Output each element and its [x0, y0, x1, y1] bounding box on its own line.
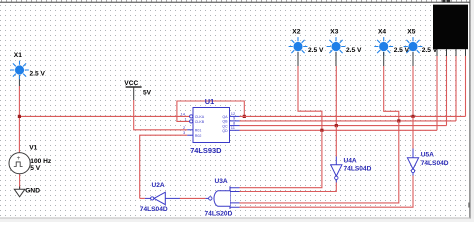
node QA junction — [411, 115, 414, 118]
svg-text:+: + — [17, 155, 21, 162]
label GND — [25, 187, 40, 194]
op-amp U1 body 74LS93D — [193, 108, 230, 143]
pin 8 — [233, 120, 236, 125]
wire U2A output to R02 riser — [140, 197, 145, 199]
pin 3 — [183, 130, 186, 135]
svg-text:QA: QA — [222, 115, 228, 119]
value 2.5 V (X2) — [308, 47, 324, 54]
svg-text:2.5 V: 2.5 V — [346, 47, 362, 54]
wire U4A output to U3A input 2 — [240, 183, 337, 192]
value 5V — [143, 90, 152, 97]
pin 12 — [231, 111, 236, 116]
label U5A — [421, 152, 434, 159]
svg-text:2.5 V: 2.5 V — [308, 47, 324, 54]
nand gate U3A 74LS20D — [205, 186, 239, 209]
wire QA row — [240, 115, 466, 117]
node QA loop junction — [243, 115, 246, 118]
wire QD junction down to U3A input 1 — [240, 130, 322, 187]
svg-text:5V: 5V — [143, 90, 152, 97]
wire X2 to QD — [298, 52, 322, 130]
pin R01 stub — [187, 129, 193, 131]
svg-text:CLKB: CLKB — [195, 120, 205, 124]
wire QB row — [240, 120, 457, 122]
wire VCC to R01 — [134, 100, 188, 130]
value 5 V — [30, 165, 40, 172]
svg-text:100 Hz: 100 Hz — [30, 158, 52, 165]
svg-text:X2: X2 — [292, 28, 300, 35]
ground — [14, 187, 25, 197]
pin 14 — [181, 111, 186, 116]
svg-text:74LS04D: 74LS04D — [344, 165, 372, 172]
border right edge — [468, 0, 474, 222]
svg-text:U5A: U5A — [421, 152, 434, 159]
source V1 — [9, 153, 30, 174]
value 2.5 V (X3) — [346, 47, 362, 54]
node QC junction — [335, 124, 338, 127]
label X5 — [407, 28, 415, 35]
wire X1 to CLKA horizontal — [19, 115, 189, 117]
svg-text:QC: QC — [222, 124, 228, 128]
probe X1 — [10, 60, 29, 79]
pin QB stub — [230, 120, 240, 122]
svg-text:V1: V1 — [29, 145, 37, 152]
pin QA stub — [230, 115, 240, 117]
wire QB junction down to U3A input 3 — [240, 121, 399, 203]
border bottom edge — [0, 218, 474, 222]
wire QC junction to U4A input — [335, 126, 337, 157]
pin 9 — [233, 116, 236, 121]
wire V1 to GND — [19, 174, 21, 189]
probe X3 — [327, 37, 346, 56]
wire QD row — [240, 129, 438, 131]
svg-text:2.5 V: 2.5 V — [30, 70, 46, 77]
svg-text:X3: X3 — [330, 28, 338, 35]
power VCC — [126, 87, 142, 100]
wire QA junction to U5A input — [412, 116, 414, 148]
wire QC row — [240, 125, 447, 127]
inverter U5A — [407, 149, 418, 176]
value 100 Hz — [30, 158, 52, 165]
svg-text:R02: R02 — [195, 134, 202, 138]
label X3 — [330, 28, 338, 35]
probe X4 — [374, 37, 393, 56]
svg-text:X1: X1 — [14, 52, 22, 59]
svg-text:QD: QD — [222, 129, 228, 133]
inverter U2A — [145, 192, 180, 204]
label V1 — [29, 145, 37, 152]
svg-text:X4: X4 — [378, 28, 386, 35]
value 2.5 V (X5) — [422, 47, 438, 54]
label 74LS04D (U5A) — [421, 160, 449, 167]
pin 1 — [185, 117, 188, 122]
label VCC — [124, 80, 138, 87]
svg-text:5 V: 5 V — [30, 165, 40, 172]
wire X3 to QC — [335, 52, 337, 126]
svg-text:CLKA: CLKA — [195, 115, 205, 119]
wire scope ch4 to QA row — [465, 49, 467, 116]
wire scope ch2 to QC row — [446, 49, 448, 126]
pin QD stub — [230, 129, 240, 131]
pin CLKA bubble — [190, 115, 193, 118]
pin R02 stub — [187, 134, 193, 136]
label U1 — [205, 97, 214, 106]
wire X4 to QB — [384, 52, 399, 121]
svg-text:R01: R01 — [195, 128, 202, 132]
svg-text:QB: QB — [222, 120, 228, 124]
svg-text:U2A: U2A — [152, 182, 165, 189]
value 2.5 V (X4) — [394, 47, 410, 54]
probe X5 — [404, 37, 423, 56]
svg-text:74LS93D: 74LS93D — [190, 146, 222, 155]
svg-text:GND: GND — [25, 187, 40, 194]
wire U2A output to R02 — [140, 135, 188, 198]
pin QC stub — [230, 125, 240, 127]
wire X5 to QA — [412, 52, 414, 116]
label 74LS93D — [190, 146, 222, 155]
label 74LS04D (U2A) — [140, 206, 168, 213]
probe X2 — [289, 37, 308, 56]
label 74LS04D (U4A) — [344, 165, 372, 172]
svg-text:X5: X5 — [407, 28, 415, 35]
label X1 — [14, 52, 22, 59]
wire U5A output to U3A input 4 — [240, 176, 414, 208]
label U3A — [215, 178, 228, 185]
label 74LS20D — [205, 210, 233, 217]
pin CLKB bubble — [190, 120, 193, 123]
node X1 junction — [18, 115, 21, 118]
label X4 — [378, 28, 386, 35]
label X2 — [292, 28, 300, 35]
svg-text:VCC: VCC — [124, 80, 138, 87]
wire scope ch1 to QD row — [436, 49, 438, 130]
wire scope ch3 to QB row — [455, 49, 457, 121]
wire X1 vertical to V1 — [18, 75, 20, 152]
wire QA feedback loop to CLKB — [177, 101, 244, 121]
wire U3A output to U2A input — [180, 197, 206, 199]
pin 11 — [231, 125, 236, 130]
svg-text:U4A: U4A — [344, 157, 357, 164]
svg-text:74LS04D: 74LS04D — [421, 160, 449, 167]
svg-text:74LS20D: 74LS20D — [205, 210, 233, 217]
label U2A — [152, 182, 165, 189]
svg-text:U1: U1 — [205, 97, 214, 106]
svg-text:74LS04D: 74LS04D — [140, 206, 168, 213]
oscilloscope U6 black box — [433, 0, 468, 49]
svg-text:U3A: U3A — [215, 178, 228, 185]
label U4A — [344, 157, 357, 164]
pin 2 — [183, 125, 186, 130]
inverter U4A — [331, 157, 342, 183]
node QB junction — [397, 119, 400, 122]
node QD junction — [320, 129, 323, 132]
value 2.5 V (X1) — [30, 70, 46, 77]
